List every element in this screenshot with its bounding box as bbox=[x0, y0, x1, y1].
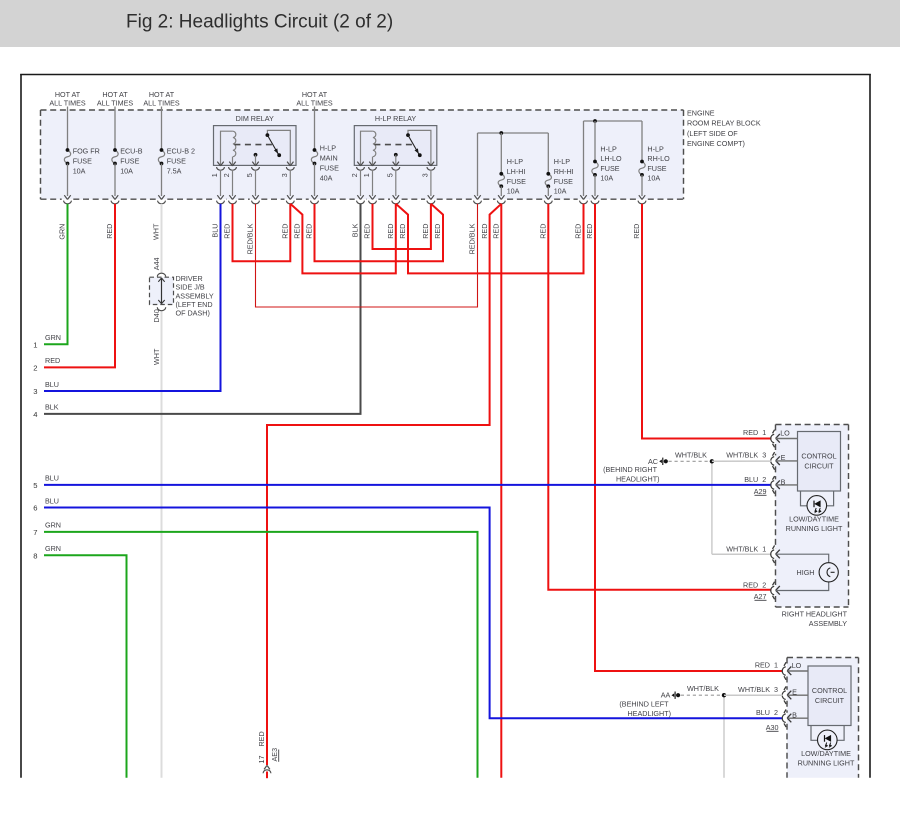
svg-text:RED: RED bbox=[105, 224, 114, 239]
svg-text:2: 2 bbox=[33, 364, 37, 373]
svg-text:RED: RED bbox=[574, 224, 583, 239]
svg-text:A27: A27 bbox=[754, 592, 767, 601]
svg-text:FOG FR: FOG FR bbox=[73, 146, 100, 155]
svg-text:RED: RED bbox=[421, 224, 430, 239]
svg-text:WHT/BLK: WHT/BLK bbox=[726, 451, 758, 460]
svg-text:5: 5 bbox=[33, 481, 37, 490]
svg-text:1: 1 bbox=[33, 340, 37, 349]
svg-text:2: 2 bbox=[350, 173, 359, 177]
svg-text:10A: 10A bbox=[120, 167, 133, 176]
svg-text:FUSE: FUSE bbox=[554, 177, 573, 186]
svg-text:CONTROL: CONTROL bbox=[812, 686, 847, 695]
svg-text:FUSE: FUSE bbox=[600, 164, 619, 173]
svg-text:DIM RELAY: DIM RELAY bbox=[236, 114, 274, 123]
svg-text:GRN: GRN bbox=[58, 224, 67, 240]
svg-text:CIRCUIT: CIRCUIT bbox=[815, 696, 845, 705]
svg-text:LO: LO bbox=[792, 661, 802, 670]
svg-text:1: 1 bbox=[210, 173, 219, 177]
svg-text:(LEFT END: (LEFT END bbox=[176, 300, 213, 309]
svg-text:RH-LO: RH-LO bbox=[647, 154, 670, 163]
svg-text:RED: RED bbox=[223, 224, 232, 239]
svg-text:WHT: WHT bbox=[152, 348, 161, 365]
svg-text:RED: RED bbox=[45, 356, 60, 365]
svg-text:2: 2 bbox=[222, 173, 231, 177]
svg-text:RED: RED bbox=[743, 428, 758, 437]
svg-text:RH-HI: RH-HI bbox=[554, 167, 574, 176]
svg-text:A29: A29 bbox=[754, 487, 767, 496]
svg-text:ALL TIMES: ALL TIMES bbox=[97, 99, 134, 108]
svg-text:3: 3 bbox=[33, 387, 37, 396]
svg-text:1: 1 bbox=[762, 544, 766, 553]
svg-text:ENGINE COMPT): ENGINE COMPT) bbox=[687, 139, 745, 148]
svg-text:1: 1 bbox=[762, 428, 766, 437]
svg-text:H-LP: H-LP bbox=[600, 145, 617, 154]
svg-text:RIGHT HEADLIGHT: RIGHT HEADLIGHT bbox=[782, 610, 848, 619]
svg-text:7.5A: 7.5A bbox=[167, 167, 182, 176]
svg-text:RED/BLK: RED/BLK bbox=[468, 223, 477, 254]
svg-text:HEADLIGHT): HEADLIGHT) bbox=[627, 709, 671, 718]
svg-text:10A: 10A bbox=[600, 174, 613, 183]
svg-text:BLU: BLU bbox=[756, 708, 770, 717]
svg-text:1: 1 bbox=[362, 173, 371, 177]
svg-text:RUNNING LIGHT: RUNNING LIGHT bbox=[786, 524, 843, 533]
svg-text:WHT: WHT bbox=[152, 223, 161, 240]
svg-text:HIGH: HIGH bbox=[797, 568, 815, 577]
svg-text:BLU: BLU bbox=[45, 474, 59, 483]
svg-text:E: E bbox=[792, 687, 797, 696]
svg-text:6: 6 bbox=[33, 504, 37, 513]
svg-text:WHT/BLK: WHT/BLK bbox=[738, 685, 770, 694]
svg-text:BLK: BLK bbox=[351, 223, 360, 237]
svg-text:3: 3 bbox=[762, 451, 766, 460]
svg-text:HEADLIGHT): HEADLIGHT) bbox=[616, 474, 660, 483]
svg-text:RED: RED bbox=[755, 661, 770, 670]
svg-text:WHT/BLK: WHT/BLK bbox=[675, 450, 707, 459]
svg-text:GRN: GRN bbox=[45, 544, 61, 553]
svg-text:(BEHIND RIGHT: (BEHIND RIGHT bbox=[603, 465, 658, 474]
svg-text:5: 5 bbox=[385, 173, 394, 177]
svg-text:BLU: BLU bbox=[45, 380, 59, 389]
svg-text:H-LP RELAY: H-LP RELAY bbox=[375, 114, 416, 123]
svg-text:BLU: BLU bbox=[211, 224, 220, 238]
svg-text:BLK: BLK bbox=[45, 403, 59, 412]
svg-text:RED: RED bbox=[433, 224, 442, 239]
svg-text:OF DASH): OF DASH) bbox=[176, 309, 210, 318]
svg-text:B: B bbox=[781, 477, 786, 486]
svg-text:FUSE: FUSE bbox=[320, 164, 339, 173]
svg-text:RUNNING LIGHT: RUNNING LIGHT bbox=[798, 759, 855, 768]
svg-text:10A: 10A bbox=[647, 174, 660, 183]
svg-text:WHT/BLK: WHT/BLK bbox=[726, 544, 758, 553]
svg-text:RED: RED bbox=[257, 731, 266, 746]
svg-text:WHT/BLK: WHT/BLK bbox=[687, 684, 719, 693]
svg-text:BLU: BLU bbox=[744, 475, 758, 484]
svg-text:LH-HI: LH-HI bbox=[507, 167, 526, 176]
svg-text:FUSE: FUSE bbox=[73, 156, 92, 165]
svg-text:RED: RED bbox=[492, 224, 501, 239]
svg-text:FUSE: FUSE bbox=[120, 156, 139, 165]
svg-text:10A: 10A bbox=[73, 167, 86, 176]
svg-text:ALL TIMES: ALL TIMES bbox=[296, 99, 333, 108]
svg-text:GRN: GRN bbox=[45, 333, 61, 342]
svg-text:17: 17 bbox=[257, 756, 266, 764]
svg-text:3: 3 bbox=[421, 173, 430, 177]
svg-text:MAIN: MAIN bbox=[320, 153, 338, 162]
svg-text:RED: RED bbox=[480, 224, 489, 239]
svg-text:RED: RED bbox=[632, 224, 641, 239]
svg-text:ALL TIMES: ALL TIMES bbox=[143, 99, 180, 108]
svg-text:FUSE: FUSE bbox=[647, 164, 666, 173]
svg-text:RED: RED bbox=[386, 224, 395, 239]
svg-text:RED: RED bbox=[398, 224, 407, 239]
svg-text:LOW/DAYTIME: LOW/DAYTIME bbox=[789, 515, 839, 524]
svg-text:ECU-B 2: ECU-B 2 bbox=[167, 146, 195, 155]
svg-text:BLU: BLU bbox=[45, 496, 59, 505]
svg-text:(BEHIND LEFT: (BEHIND LEFT bbox=[619, 699, 669, 708]
svg-text:H-LP: H-LP bbox=[320, 143, 337, 152]
svg-text:GRN: GRN bbox=[45, 521, 61, 530]
svg-text:RED: RED bbox=[539, 224, 548, 239]
svg-text:SIDE J/B: SIDE J/B bbox=[176, 283, 205, 292]
svg-text:RED: RED bbox=[293, 224, 302, 239]
svg-text:H-LP: H-LP bbox=[647, 145, 664, 154]
svg-text:10A: 10A bbox=[507, 187, 520, 196]
svg-text:RED: RED bbox=[281, 224, 290, 239]
svg-text:E: E bbox=[781, 453, 786, 462]
svg-text:RED: RED bbox=[585, 224, 594, 239]
svg-text:A30: A30 bbox=[766, 723, 779, 732]
svg-text:B: B bbox=[792, 711, 797, 720]
svg-text:FUSE: FUSE bbox=[507, 177, 526, 186]
svg-text:D40: D40 bbox=[152, 309, 161, 322]
svg-text:A44: A44 bbox=[152, 258, 161, 271]
svg-text:ASSEMBLY: ASSEMBLY bbox=[176, 291, 214, 300]
svg-text:ROOM RELAY BLOCK: ROOM RELAY BLOCK bbox=[687, 119, 761, 128]
svg-text:DRIVER: DRIVER bbox=[176, 274, 203, 283]
svg-text:AE3: AE3 bbox=[270, 748, 279, 762]
svg-text:8: 8 bbox=[33, 551, 37, 560]
svg-text:5: 5 bbox=[245, 173, 254, 177]
svg-text:FUSE: FUSE bbox=[167, 156, 186, 165]
svg-text:LOW/DAYTIME: LOW/DAYTIME bbox=[801, 749, 851, 758]
svg-text:H-LP: H-LP bbox=[507, 157, 524, 166]
svg-text:ENGINE: ENGINE bbox=[687, 109, 715, 118]
svg-text:CIRCUIT: CIRCUIT bbox=[804, 462, 834, 471]
svg-text:ASSEMBLY: ASSEMBLY bbox=[809, 619, 847, 628]
svg-text:40A: 40A bbox=[320, 174, 333, 183]
svg-text:1: 1 bbox=[774, 661, 778, 670]
svg-text:2: 2 bbox=[774, 708, 778, 717]
svg-text:ECU-B: ECU-B bbox=[120, 146, 143, 155]
svg-text:RED: RED bbox=[305, 224, 314, 239]
svg-text:Fig 2: Headlights Circuit (2 o: Fig 2: Headlights Circuit (2 of 2) bbox=[126, 12, 393, 33]
svg-text:2: 2 bbox=[762, 475, 766, 484]
svg-text:3: 3 bbox=[774, 685, 778, 694]
svg-text:RED: RED bbox=[743, 580, 758, 589]
svg-text:ALL TIMES: ALL TIMES bbox=[49, 99, 86, 108]
svg-text:LH-LO: LH-LO bbox=[600, 154, 622, 163]
svg-text:10A: 10A bbox=[554, 187, 567, 196]
svg-text:2: 2 bbox=[762, 580, 766, 589]
svg-text:7: 7 bbox=[33, 528, 37, 537]
svg-text:3: 3 bbox=[280, 173, 289, 177]
svg-text:RED: RED bbox=[363, 224, 372, 239]
svg-text:(LEFT SIDE OF: (LEFT SIDE OF bbox=[687, 129, 738, 138]
svg-text:H-LP: H-LP bbox=[554, 157, 571, 166]
svg-text:LO: LO bbox=[780, 428, 790, 437]
svg-text:RED/BLK: RED/BLK bbox=[246, 223, 255, 254]
svg-text:CONTROL: CONTROL bbox=[801, 452, 836, 461]
